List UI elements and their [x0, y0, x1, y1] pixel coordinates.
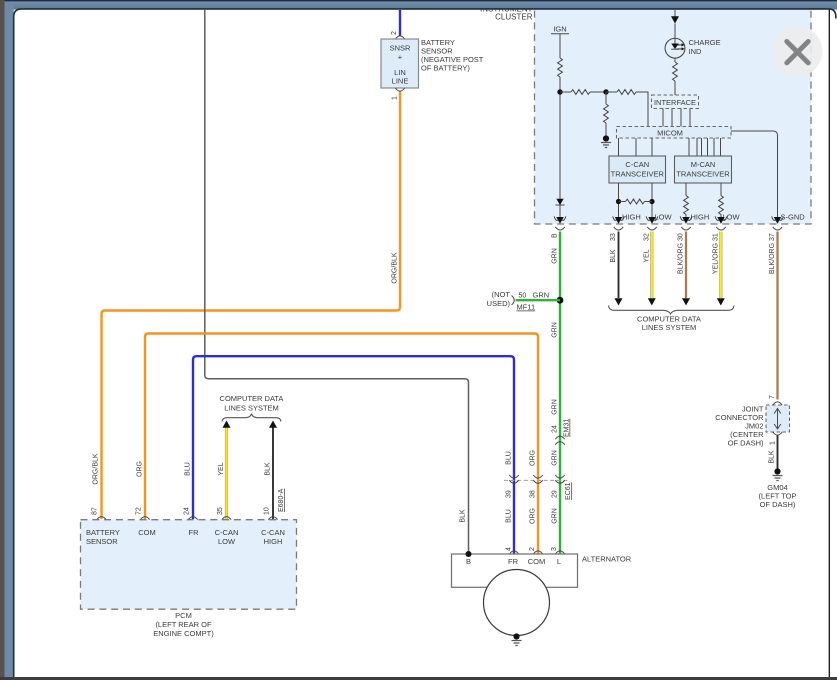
brace computer data lines — [609, 306, 735, 315]
svg-text:30: 30 — [678, 233, 685, 241]
node junction 1 — [557, 89, 562, 94]
pin 37 exit — [772, 216, 784, 223]
svg-text:ORG: ORG — [137, 461, 144, 477]
wire charge feed — [674, 10, 676, 17]
svg-text:BLU: BLU — [506, 509, 513, 523]
lamp CHARGE IND — [665, 38, 685, 58]
svg-text:B: B — [466, 557, 471, 566]
svg-text:39: 39 — [506, 490, 513, 498]
resistor R5 — [673, 62, 678, 81]
svg-text:TRANSCEIVER: TRANSCEIVER — [676, 169, 730, 178]
svg-text:BLU: BLU — [506, 451, 513, 465]
generator circle — [484, 570, 550, 636]
svg-text:OF DASH): OF DASH) — [760, 500, 796, 509]
svg-text:BATTERY: BATTERY — [86, 528, 120, 537]
svg-text:BLU: BLU — [185, 462, 192, 476]
diagram right border — [828, 9, 830, 677]
ground GM04 — [773, 468, 783, 480]
svg-text:(LEFT REAR OF: (LEFT REAR OF — [155, 620, 212, 629]
svg-text:BLK: BLK — [265, 462, 272, 476]
svg-text:MICOM: MICOM — [657, 128, 683, 137]
wire S-GND — [731, 131, 778, 218]
svg-text:B: B — [552, 233, 559, 238]
svg-text:ENGINE COMPT): ENGINE COMPT) — [153, 629, 214, 638]
svg-text:37: 37 — [769, 233, 776, 241]
svg-text:7: 7 — [769, 395, 776, 399]
wire — [645, 201, 653, 203]
svg-text:M-CAN: M-CAN — [691, 160, 716, 169]
wire BLK — [777, 436, 779, 470]
wire — [606, 91, 617, 93]
svg-text:31: 31 — [713, 233, 720, 241]
svg-text:COM: COM — [138, 528, 156, 537]
svg-text:BLK: BLK — [769, 450, 776, 464]
svg-text:ALTERNATOR: ALTERNATOR — [582, 555, 632, 564]
alternator box — [452, 554, 578, 587]
node MF11 tap — [557, 297, 564, 304]
svg-text:FR: FR — [189, 528, 200, 537]
svg-text:C-CAN: C-CAN — [261, 528, 285, 537]
wire YEL/ORG (pin 31) — [719, 232, 722, 299]
left blue strip — [5, 1, 14, 677]
block MICOM — [617, 127, 732, 139]
pin arcs — [97, 517, 106, 520]
wire — [559, 77, 561, 199]
resistor R4 — [617, 90, 636, 95]
wire — [605, 92, 607, 104]
svg-text:HIGH: HIGH — [264, 537, 283, 546]
brace computer data lines (PCM side) — [222, 414, 281, 421]
wire — [674, 58, 676, 62]
pin 1 — [395, 88, 404, 91]
pin arcs — [509, 551, 518, 554]
bus micom to C-CAN — [619, 138, 653, 156]
wire — [674, 24, 676, 39]
svg-text:29: 29 — [552, 490, 559, 498]
wire YEL (C-CAN LOW) — [225, 428, 228, 520]
arrow (feed direction) — [671, 16, 679, 23]
ground (alternator case) — [512, 633, 522, 645]
svg-text:EC61: EC61 — [565, 482, 572, 500]
svg-text:33: 33 — [610, 233, 617, 241]
svg-text:IGN: IGN — [553, 25, 566, 34]
svg-text:ORG: ORG — [530, 450, 537, 466]
svg-text:USED): USED) — [487, 299, 511, 308]
svg-text:L: L — [557, 557, 561, 566]
resistor R3 — [604, 104, 609, 123]
bottom dark bar — [0, 677, 837, 680]
wire GRN stub — [516, 299, 561, 301]
svg-text:2: 2 — [529, 547, 536, 551]
wire BLK from top to alternator B — [205, 10, 469, 553]
resistor R2 — [571, 90, 590, 95]
svg-text:COM: COM — [528, 557, 546, 566]
wire ORG (PCM COM to alternator COM) — [145, 334, 538, 554]
svg-text:OF BATTERY): OF BATTERY) — [421, 64, 470, 73]
wire — [559, 205, 561, 218]
svg-text:BLK/ORG: BLK/ORG — [769, 243, 776, 274]
svg-text:SENSOR: SENSOR — [86, 537, 118, 546]
svg-text:4: 4 — [506, 547, 513, 551]
joint bar — [774, 409, 781, 430]
svg-text:YEL: YEL — [643, 249, 650, 262]
svg-text:TRANSCEIVER: TRANSCEIVER — [611, 169, 665, 178]
wire — [636, 92, 648, 127]
svg-text:C-CAN: C-CAN — [215, 528, 239, 537]
connector JM02 box — [766, 405, 790, 432]
svg-text:2: 2 — [391, 31, 398, 35]
svg-text:PCM: PCM — [175, 611, 192, 620]
wire YEL (pin 32) — [650, 232, 653, 299]
wire — [590, 91, 606, 93]
svg-text:32: 32 — [644, 233, 651, 241]
svg-text:YEL: YEL — [218, 462, 225, 475]
resistor R6 (CAN termination) — [626, 199, 645, 204]
node B — [466, 551, 472, 557]
pin 30 exit — [680, 216, 692, 223]
module PCM box — [81, 520, 297, 610]
wire BLU (PCM FR to alternator FR) — [193, 356, 514, 553]
wire M-CAN LOW — [720, 183, 722, 196]
wire GRN main — [559, 232, 561, 554]
diode D1 — [556, 199, 563, 205]
wire C-CAN HIGH — [618, 183, 620, 218]
svg-text:LINE: LINE — [392, 77, 409, 86]
svg-text:24: 24 — [184, 507, 191, 515]
svg-text:ORG/BLK: ORG/BLK — [392, 252, 399, 283]
close button — [772, 26, 823, 77]
sensor SNSR box — [381, 39, 419, 88]
svg-text:GRN: GRN — [552, 399, 559, 415]
wire ORG/BLK to PCM — [102, 92, 401, 520]
svg-text:24: 24 — [552, 425, 559, 433]
svg-text:EM31: EM31 — [564, 419, 571, 437]
svg-text:SNSR: SNSR — [390, 44, 411, 53]
ground (cluster internal) — [601, 135, 611, 147]
wire — [619, 201, 626, 203]
svg-text:3: 3 — [551, 547, 558, 551]
wire — [674, 81, 676, 95]
svg-text:COMPUTER DATA: COMPUTER DATA — [220, 394, 284, 403]
pin 33 exit — [613, 216, 625, 223]
svg-text:BLK/ORG: BLK/ORG — [678, 243, 685, 274]
wire C-CAN LOW — [651, 183, 653, 218]
svg-text:HIGH: HIGH — [691, 213, 710, 222]
wire BLK (pin 33) — [618, 232, 620, 299]
svg-text:LINES SYSTEM: LINES SYSTEM — [224, 404, 279, 413]
svg-text:YEL/ORG: YEL/ORG — [712, 243, 719, 274]
svg-text:GRN: GRN — [552, 450, 559, 466]
wire — [605, 123, 607, 136]
resistor R8 — [719, 196, 724, 215]
svg-text:LOW: LOW — [218, 537, 236, 546]
svg-text:1: 1 — [770, 441, 777, 445]
svg-text:S-GND: S-GND — [781, 213, 806, 222]
svg-text:BLK: BLK — [610, 249, 617, 263]
svg-text:87: 87 — [92, 507, 99, 515]
svg-text:ORG: ORG — [530, 508, 537, 524]
connector EC61 — [504, 479, 568, 481]
svg-text:35: 35 — [217, 507, 224, 515]
svg-text:72: 72 — [136, 507, 143, 515]
wire — [560, 91, 571, 93]
svg-text:(NOT: (NOT — [492, 290, 511, 299]
svg-text:BLK: BLK — [460, 509, 467, 523]
svg-text:GRN: GRN — [552, 508, 559, 524]
resistor R7 — [684, 196, 689, 215]
svg-text:ORG/BLK: ORG/BLK — [93, 453, 100, 484]
svg-text:38: 38 — [530, 490, 537, 498]
block C-CAN TRANSCEIVER U1 — [609, 156, 666, 183]
svg-text:50: 50 — [519, 293, 527, 300]
pin B exit — [554, 216, 566, 223]
header bar — [0, 0, 837, 10]
resistor R1 (IGN) — [558, 58, 563, 77]
svg-text:CLUSTER: CLUSTER — [495, 12, 533, 21]
block INTERFACE — [652, 95, 699, 109]
svg-text:HIGH: HIGH — [622, 213, 641, 222]
svg-text:FR: FR — [508, 557, 519, 566]
pin 32 exit — [646, 216, 658, 223]
svg-text:1: 1 — [392, 96, 399, 100]
wire BLK (C-CAN HIGH) — [272, 428, 274, 520]
svg-text:C-CAN: C-CAN — [625, 160, 649, 169]
svg-text:E680-A: E680-A — [278, 488, 285, 512]
node junction 2 — [603, 89, 608, 94]
bus interface-micom — [663, 109, 690, 127]
instrument cluster box — [535, 4, 812, 224]
pin 1 — [773, 432, 782, 435]
wire IGN vertical — [559, 34, 561, 58]
svg-text:MF11: MF11 — [517, 303, 536, 312]
block M-CAN TRANSCEIVER U2 — [675, 156, 732, 183]
wire M-CAN HIGH — [685, 183, 687, 196]
svg-text:IND: IND — [689, 47, 703, 56]
bus micom to M-CAN — [689, 138, 721, 156]
svg-text:GRN: GRN — [552, 322, 559, 338]
node — [649, 199, 654, 204]
pin 31 exit — [715, 216, 727, 223]
svg-text:OF DASH): OF DASH) — [728, 439, 764, 448]
svg-text:LINES SYSTEM: LINES SYSTEM — [642, 323, 697, 332]
wire BLK/ORG (pin 37 to JM02) — [776, 232, 778, 400]
connector EM31 — [555, 436, 564, 439]
wire BLK/ORG (pin 30) — [685, 232, 687, 299]
wire BLU from top — [399, 10, 401, 36]
svg-text:GRN: GRN — [533, 291, 550, 300]
node — [616, 199, 621, 204]
svg-text:10: 10 — [264, 507, 271, 515]
svg-text:+: + — [398, 53, 403, 62]
svg-text:INTERFACE: INTERFACE — [654, 98, 696, 107]
left dark strip — [0, 0, 5, 680]
svg-text:GRN: GRN — [552, 248, 559, 264]
